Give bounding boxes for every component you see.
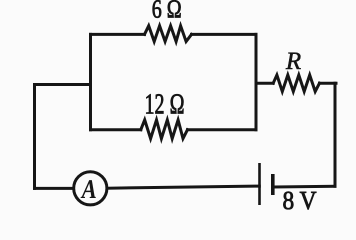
battery B1 long plate (positive terminal) [258, 163, 261, 205]
wire top branch left (node B to resistor 6 ohm) [91, 33, 145, 36]
svg-text:8 V: 8 V [283, 186, 317, 215]
svg-text:12 Ω: 12 Ω [145, 89, 185, 121]
svg-text:R: R [285, 48, 301, 75]
wire resistor R to right rail [320, 82, 337, 85]
wire right vertical rail [334, 83, 337, 186]
svg-text:6 Ω: 6 Ω [152, 0, 182, 23]
battery B1 short plate (negative terminal) [271, 174, 275, 195]
wire top branch right (resistor 6 ohm to node C) [192, 33, 257, 36]
wire bottom left to ammeter [35, 187, 73, 190]
wire ammeter to battery positive plate [107, 186, 259, 188]
wire node C to resistor R [256, 82, 273, 85]
wire left vertical rail [33, 85, 36, 189]
resistor R1 6 ohm (top parallel branch) [145, 26, 192, 42]
wire right side of parallel pair (node C down) [255, 34, 258, 129]
wire left side of parallel pair (node B down) [89, 34, 92, 129]
wire bottom branch right (resistor 12 ohm to node C) [188, 128, 257, 131]
wire bottom branch left (node B to resistor 12 ohm) [91, 128, 141, 131]
wire left connector (node B to left rail) [35, 83, 91, 86]
ammeter A (circle body) [74, 172, 107, 205]
resistor R2 12 ohm (bottom parallel branch) [141, 120, 188, 139]
svg-text:A: A [80, 174, 97, 204]
resistor R (right branch) [273, 75, 319, 92]
wire battery negative plate to right rail [274, 185, 335, 189]
